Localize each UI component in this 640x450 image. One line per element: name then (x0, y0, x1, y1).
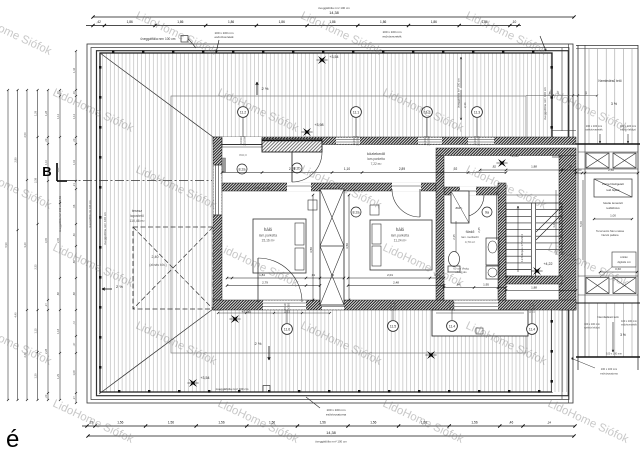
svg-text:4,70 m²: 4,70 m² (465, 240, 475, 244)
svg-text:,96: ,96 (72, 204, 76, 208)
svg-text:1,86: 1,86 (279, 20, 285, 24)
svg-text:felette lemezelt: felette lemezelt (603, 201, 623, 205)
svg-text:1,95: 1,95 (483, 283, 489, 287)
svg-text:B: B (42, 164, 51, 179)
svg-text:Nemfedésű tető: Nemfedésű tető (597, 315, 619, 319)
svg-text:1,86: 1,86 (380, 20, 386, 24)
svg-text:2,50: 2,50 (23, 132, 27, 138)
interior dim row bath lower (444, 287, 506, 289)
svg-text:2,01: 2,01 (387, 273, 393, 277)
building interior white (213, 137, 576, 310)
top wall recess entrance (222, 137, 262, 147)
svg-text:LidoHome Siófok: LidoHome Siófok (216, 398, 301, 446)
svg-text:1,86: 1,86 (431, 20, 437, 24)
annex second vline (584, 45, 586, 357)
svg-text:2,38: 2,38 (34, 177, 38, 183)
interior dim row bed2 lower (348, 277, 444, 279)
svg-text:1,12: 1,12 (72, 113, 76, 119)
top band vdim uveggatfolia (460, 57, 462, 88)
door arc bedroom1 from corridor (292, 152, 322, 182)
svg-text:háló: háló (396, 227, 405, 232)
svg-text:,42: ,42 (96, 20, 101, 24)
svg-text:2 %: 2 % (262, 86, 269, 91)
svg-text:1,08: 1,08 (72, 370, 76, 376)
corridor wall door opening bed2 (392, 183, 421, 192)
svg-text:110/110: 110/110 (352, 136, 356, 146)
level marker +4,00 stairs (498, 159, 506, 167)
slope arrow 2% left band (102, 288, 112, 290)
corridor wall door opening bed1 (287, 183, 311, 192)
svg-text:+4,22: +4,22 (543, 262, 552, 266)
bottom wall terrace door opening (263, 300, 306, 309)
roof eave outline outer (87, 44, 573, 403)
svg-text:14,38: 14,38 (329, 11, 339, 15)
slope arrow 2% right-bottom (522, 262, 524, 277)
svg-text:szétvíz lefolyó: szétvíz lefolyó (584, 327, 600, 330)
stairs bottom dim (506, 290, 576, 292)
level marker +3,54 top band (318, 56, 326, 64)
door circle marker bedroom2 (351, 207, 361, 217)
svg-text:110,46 m²: 110,46 m² (129, 219, 145, 223)
svg-text:100 x 100 mm: 100 x 100 mm (326, 408, 346, 412)
lower terrace notch (432, 310, 528, 336)
svg-text:háló: háló (264, 227, 273, 232)
svg-text:1,02: 1,02 (72, 159, 76, 165)
column marker 11.2 (422, 107, 433, 118)
roof eave extra right line (568, 44, 570, 403)
level marker +3,56 (231, 315, 239, 323)
stairs vdim (555, 190, 557, 255)
annex connect lines (573, 143, 578, 145)
svg-text:1,56: 1,56 (320, 421, 326, 425)
shower tray (451, 191, 469, 223)
door circle marker 8.2a (237, 164, 247, 174)
column marker 11.6 (282, 324, 293, 335)
level marker bottom-right room (427, 351, 435, 359)
bed room2 (370, 220, 432, 270)
column marker 11.3 (472, 107, 483, 118)
svg-text:,82: ,82 (492, 165, 497, 169)
svg-text:,10: ,10 (568, 165, 573, 169)
svg-text:1,10: 1,10 (44, 159, 48, 165)
annex right vline (637, 45, 639, 370)
svg-text:,27: ,27 (44, 303, 48, 307)
dim chain bottom (82, 425, 575, 427)
top wall window 3 (468, 138, 494, 144)
svg-text:2,89: 2,89 (399, 167, 405, 171)
svg-text:11.3: 11.3 (474, 111, 480, 115)
svg-text:1,10: 1,10 (344, 167, 350, 171)
svg-text:,10: ,10 (330, 273, 335, 277)
wall bathroom / stairs (498, 183, 506, 300)
svg-text:225/260: 225/260 (427, 135, 431, 145)
bath inner line (496, 192, 498, 240)
svg-text:zuh.: zuh. (455, 206, 462, 210)
section line B-B (67, 180, 212, 182)
svg-text:3,20: 3,20 (23, 242, 27, 248)
bed room1 (253, 219, 306, 273)
svg-text:11.6: 11.6 (284, 328, 290, 332)
svg-text:2,79: 2,79 (262, 281, 268, 285)
svg-text:(aknás bőv.): (aknás bőv.) (149, 263, 166, 267)
slope arrow 2% top band (256, 82, 258, 95)
svg-text:LidoHome Siófok: LidoHome Siófok (381, 398, 466, 446)
svg-text:+3,56: +3,56 (241, 310, 250, 314)
top wall window 2 (418, 138, 442, 144)
svg-text:2,44: 2,44 (463, 102, 467, 108)
svg-text:é: é (6, 426, 19, 450)
svg-text:20: 20 (579, 168, 582, 172)
ridge hip bottom-left (99, 309, 213, 394)
bed1 nightstand (308, 200, 317, 210)
svg-text:esővízcsatorna: esővízcsatorna (600, 372, 618, 376)
wall pier corridor (222, 158, 226, 172)
annex top lines (576, 45, 638, 47)
svg-text:LidoHome Siófok: LidoHome Siófok (546, 398, 631, 446)
svg-text:3,05: 3,05 (44, 237, 48, 243)
annex skylight row 2 (578, 275, 638, 277)
annex bottom thick (576, 356, 640, 358)
wall bedroom2 / bathroom (436, 155, 444, 300)
column marker 11.1 (351, 107, 362, 118)
svg-text:110/110: 110/110 (239, 136, 243, 146)
annex dim row 2,50 (576, 172, 638, 174)
svg-text:,10: ,10 (512, 20, 517, 24)
svg-text:110/110: 110/110 (423, 136, 427, 146)
svg-text:225/260: 225/260 (356, 135, 360, 145)
door arc bathroom (462, 195, 484, 217)
svg-text:,92: ,92 (453, 167, 458, 171)
svg-text:1,40: 1,40 (552, 222, 556, 228)
svg-text:1,56: 1,56 (218, 421, 224, 425)
svg-text:14,38: 14,38 (326, 431, 336, 435)
corridor south wall (222, 183, 436, 191)
staircase (506, 203, 562, 278)
dim overall bottom (88, 435, 574, 437)
svg-text:szétán: szétán (620, 255, 628, 259)
left wall window (213, 165, 221, 215)
dim chain top (86, 25, 521, 27)
svg-text:8.2a: 8.2a (239, 168, 246, 172)
svg-text:+3,54: +3,54 (200, 376, 209, 380)
bathroom door opening (460, 187, 476, 196)
svg-text:110/110: 110/110 (389, 301, 393, 311)
svg-text:1,86: 1,86 (228, 20, 234, 24)
roof fastener dots top (112, 51, 114, 54)
annex vdim 5,00 (582, 180, 584, 260)
washing machine (486, 266, 499, 279)
svg-text:üveggátfólia lm² 100 cm: üveggátfólia lm² 100 cm (457, 78, 461, 108)
annex divider 2 (576, 302, 640, 304)
svg-text:1,44: 1,44 (72, 67, 76, 73)
svg-text:2,35: 2,35 (452, 234, 456, 240)
svg-text:Nemfedésű tető: Nemfedésű tető (598, 79, 621, 83)
svg-text:225/260: 225/260 (477, 135, 481, 145)
svg-text:lapostető: lapostető (130, 214, 144, 218)
svg-text:+4,00: +4,00 (509, 154, 518, 158)
column marker 11.5 (388, 321, 399, 332)
svg-text:elhagyás: elhagyás (455, 270, 467, 274)
svg-text:üveggátfólia lm 100 cm: üveggátfólia lm 100 cm (88, 200, 92, 228)
notch drain box (476, 328, 483, 334)
svg-text:hácsót padána: hácsót padána (601, 233, 619, 237)
svg-text:,60: ,60 (72, 233, 76, 237)
level marker +3,54 bottom (189, 379, 197, 387)
bathroom north wall (444, 187, 506, 195)
roof eave right inner line (561, 48, 563, 131)
svg-text:,27: ,27 (72, 396, 76, 400)
annex dim 0,60 (600, 271, 637, 273)
svg-text:,88: ,88 (56, 292, 60, 296)
svg-text:11.5: 11.5 (390, 325, 396, 329)
svg-text:5,00: 5,00 (579, 221, 583, 227)
svg-text:,20: ,20 (44, 138, 48, 142)
svg-text:2,35: 2,35 (34, 264, 38, 270)
slope arrow 2% bottom band (268, 346, 270, 360)
svg-text:esővízvezeték: esővízvezeték (214, 35, 234, 39)
bottom wall window under wardrobe (322, 300, 344, 309)
bed2 pillows (372, 224, 381, 244)
svg-text:lam.mettlachi: lam.mettlachi (461, 235, 479, 239)
exterior wall left (213, 137, 222, 310)
svg-text:100 x 100 mm: 100 x 100 mm (601, 367, 617, 371)
svg-text:4,40: 4,40 (14, 312, 18, 318)
svg-text:,46: ,46 (509, 421, 514, 425)
svg-text:,24: ,24 (547, 421, 552, 425)
svg-text:110/110: 110/110 (473, 136, 477, 146)
door arc bedroom1 terrace (258, 258, 302, 302)
svg-text:11.4: 11.4 (529, 328, 535, 332)
left dim lines (7, 90, 9, 400)
annex small box (612, 252, 636, 267)
svg-text:5,90: 5,90 (4, 242, 8, 248)
svg-text:1,28: 1,28 (34, 110, 38, 116)
svg-text:üveggátfólia nm² 100 cm: üveggátfólia nm² 100 cm (543, 87, 547, 120)
exterior wall top (213, 137, 576, 145)
svg-text:1,15: 1,15 (34, 328, 38, 334)
roof eave outline mid (91, 48, 569, 400)
annex note box (594, 179, 632, 197)
bottom wall window right (454, 300, 498, 309)
svg-text:+3,54: +3,54 (329, 55, 338, 59)
top wall window 1 (336, 138, 360, 144)
annex dim 1,00 (594, 218, 632, 220)
svg-text:11,24 m²: 11,24 m² (394, 239, 408, 243)
dim overall top (93, 16, 574, 18)
door arc bedroom2 (392, 189, 420, 217)
svg-text:1,86: 1,86 (177, 20, 183, 24)
interior dim row bed1 lower (227, 277, 344, 279)
svg-text:100 x 100 mm: 100 x 100 mm (586, 124, 602, 128)
svg-text:üveggátfólia nm² 100 cm: üveggátfólia nm² 100 cm (216, 387, 249, 391)
column marker 11.4 (447, 321, 458, 332)
washbasin vanity (486, 238, 499, 265)
svg-text:1,56: 1,56 (370, 421, 376, 425)
svg-text:1,28: 1,28 (44, 110, 48, 116)
svg-text:100 x 100 mm: 100 x 100 mm (382, 30, 402, 34)
svg-text:közlekedő: közlekedő (367, 151, 386, 156)
svg-text:lam.parketta: lam.parketta (367, 157, 385, 161)
svg-text:esővízcsatorna: esővízcsatorna (326, 413, 347, 417)
column marker 11.4 (527, 324, 538, 335)
svg-text:,88: ,88 (72, 292, 76, 296)
svg-text:tetőkibúvó: tetőkibúvó (606, 206, 620, 210)
svg-text:1,88: 1,88 (531, 286, 537, 290)
annex skylight row 1 (578, 151, 638, 153)
svg-text:110/110: 110/110 (283, 303, 287, 313)
svg-text:2,50: 2,50 (608, 168, 614, 172)
svg-text:840,0: 840,0 (239, 153, 247, 157)
roof eave outline inner thin (97, 51, 569, 396)
svg-text:,21: ,21 (72, 183, 76, 187)
landing line (506, 194, 562, 196)
bed1 pillows (295, 223, 304, 245)
svg-text:11.4: 11.4 (449, 325, 455, 329)
svg-text:LidoHome Siófok: LidoHome Siófok (0, 10, 53, 58)
svg-text:1,56: 1,56 (168, 421, 174, 425)
roof hatch field (100, 53, 552, 392)
svg-text:0,60: 0,60 (615, 267, 621, 271)
svg-text:üveggátfólia nm² 100 cm: üveggátfólia nm² 100 cm (318, 6, 350, 10)
wc (449, 252, 460, 267)
annex divider thick (576, 143, 640, 145)
stairs top dim (480, 169, 576, 171)
svg-text:2,79: 2,79 (289, 167, 295, 171)
svg-text:2,48: 2,48 (393, 281, 399, 285)
exterior wall right (559, 155, 576, 310)
dashed rooflight void square (133, 227, 213, 309)
svg-text:2,40: 2,40 (152, 255, 159, 259)
svg-text:1,12: 1,12 (56, 113, 60, 119)
svg-text:esővízvezeték: esővízvezeték (621, 324, 638, 327)
svg-text:Ta tervezés Ném-mássa: Ta tervezés Ném-mássa (596, 229, 625, 233)
svg-text:fürdő: fürdő (466, 230, 475, 234)
door circle marker A (292, 163, 302, 173)
svg-text:1,00: 1,00 (610, 214, 616, 218)
svg-text:1,56: 1,56 (117, 421, 123, 425)
svg-text:tető fejáza: tető fejáza (607, 188, 620, 192)
interior vdim bath (455, 221, 457, 252)
ridge hip top-left (100, 53, 213, 137)
level marker +3,98 (303, 128, 311, 136)
stairwell south wall (506, 276, 562, 284)
svg-text:7,22 m²: 7,22 m² (371, 162, 382, 166)
svg-text:+3,98: +3,98 (314, 123, 323, 127)
svg-text:üveggátfólia nm² 100 cm: üveggátfólia nm² 100 cm (315, 440, 347, 444)
svg-text:225/260: 225/260 (243, 135, 247, 145)
svg-text:1,30: 1,30 (34, 373, 38, 379)
svg-text:15,16 m²: 15,16 m² (261, 239, 275, 243)
interior vdim bedroom1 (312, 195, 314, 300)
svg-text:3,50: 3,50 (309, 247, 313, 253)
interior dim row corridor (222, 172, 506, 174)
svg-text:8.2a: 8.2a (353, 211, 360, 215)
svg-text:2,25: 2,25 (477, 227, 481, 233)
svg-text:110/110: 110/110 (528, 303, 532, 313)
bed2 nightstand (370, 205, 379, 215)
exterior wall bottom (213, 300, 576, 310)
svg-text:Pácra hőszigetelt: Pácra hőszigetelt (602, 182, 624, 186)
level marker +4,22 stairs bottom (533, 267, 541, 275)
svg-text:100 x 100 mm: 100 x 100 mm (606, 353, 622, 356)
svg-text:üveggátfólia nm² 100 cm: üveggátfólia nm² 100 cm (103, 212, 107, 245)
roof hatch right strip bottom corner (552, 310, 567, 392)
svg-text:2,80: 2,80 (14, 157, 18, 163)
svg-text:esővízvezeték: esővízvezeték (382, 35, 402, 39)
svg-text:terasz: terasz (132, 209, 142, 213)
svg-text:szétvízvezeték: szétvízvezeték (585, 128, 603, 132)
column marker 11.2 (238, 107, 249, 118)
svg-text:,20: ,20 (72, 138, 76, 142)
svg-text:lam.parketta: lam.parketta (391, 234, 409, 238)
svg-text:lam.parketta: lam.parketta (259, 234, 277, 238)
svg-text:1,81: 1,81 (56, 167, 60, 173)
svg-text:3 %: 3 % (620, 333, 626, 337)
svg-text:3 %: 3 % (611, 102, 618, 106)
svg-text:1,18: 1,18 (56, 328, 60, 334)
svg-text:bm.: 2,00: bm.: 2,00 (255, 186, 270, 190)
chimney block cross hatched (262, 139, 322, 152)
bottom wall tick row (218, 312, 330, 314)
svg-text:,47: ,47 (72, 342, 76, 346)
svg-text:9a: 9a (485, 211, 489, 215)
svg-text:1,29: 1,29 (56, 373, 60, 379)
interior vdim bedroom2 (348, 195, 350, 300)
annex left vline (577, 45, 579, 370)
svg-text:2 %: 2 % (255, 341, 262, 346)
stairwell north wall (436, 148, 576, 156)
svg-text:3,50: 3,50 (345, 243, 349, 249)
svg-text:225/260: 225/260 (393, 301, 397, 311)
svg-text:1,86: 1,86 (127, 20, 133, 24)
top band cross line right (526, 95, 597, 97)
svg-text:1,56: 1,56 (471, 421, 477, 425)
svg-text:110/110: 110/110 (448, 301, 452, 311)
svg-text:11.1: 11.1 (353, 111, 359, 115)
svg-text:,20: ,20 (44, 394, 48, 398)
svg-text:90: 90 (584, 91, 588, 94)
svg-text:,72: ,72 (72, 321, 76, 325)
svg-text:digitális mű: digitális mű (618, 260, 632, 264)
built-in wardrobe (320, 189, 344, 305)
flat roof inner edge rectangle (171, 96, 526, 353)
svg-text:13 fellépés 17,6/29,4: 13 fellépés 17,6/29,4 (520, 234, 524, 262)
annex sparse hatch top (589, 49, 632, 358)
stair walk line (517, 206, 519, 272)
svg-text:1,88: 1,88 (531, 165, 537, 169)
svg-text:225/260: 225/260 (452, 301, 456, 311)
door circle marker bath (482, 207, 492, 217)
